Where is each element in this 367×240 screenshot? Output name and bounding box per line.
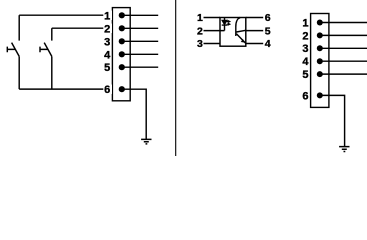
wire S2 top terminal: [51, 28, 53, 40]
wire OK1 pin 3 (nc): [204, 43, 221, 45]
svg-text:4: 4: [265, 38, 271, 50]
svg-text:3: 3: [302, 43, 308, 55]
op-amp, er, optocoupler OK1 body: [220, 18, 246, 47]
node SV2 pin 5: [317, 71, 323, 77]
switch S1 blade: [12, 43, 20, 57]
svg-text:4: 4: [302, 56, 309, 68]
node SV1 pin 5: [119, 64, 125, 70]
LED D1 light arrow upper: [227, 21, 231, 23]
svg-text:5: 5: [104, 62, 110, 74]
transistor Q1 emitter: [236, 34, 245, 44]
transistor Q1 base bar: [235, 27, 237, 37]
connector SV1 body: [112, 8, 130, 101]
node SV2 pin 2: [317, 32, 323, 38]
node SV2 pin 3: [317, 45, 323, 51]
wire OK1 pin 5 (collector): [246, 30, 263, 32]
wire common bottom net to pin 6: [19, 88, 112, 90]
wire OK1 pin 4 (emitter): [246, 43, 263, 45]
svg-text:5: 5: [302, 69, 308, 81]
switch S1 actuator: [7, 47, 15, 53]
node SV1 pin 1: [119, 12, 125, 18]
LED D1 cathode bar: [222, 24, 228, 26]
wire SV2 pin 4 stub: [320, 60, 367, 62]
svg-text:6: 6: [104, 84, 110, 96]
node SV1 pin 3: [119, 38, 125, 44]
wire SV1 pin 6 to ground: [122, 89, 146, 139]
wire pin2 net (switch S2 to connector SV1 pin 2): [52, 27, 113, 29]
wire SV1 pin 1 stub: [122, 14, 158, 16]
node SV1 pin 4: [119, 51, 125, 57]
wire OK1 pin 6 (base): [246, 17, 263, 19]
switch S2 blade: [44, 43, 52, 57]
svg-text:2: 2: [104, 23, 110, 35]
wire SV1 pin 5 stub: [122, 66, 158, 68]
wire S1 top terminal: [18, 15, 20, 40]
transistor Q1 collector: [236, 30, 245, 32]
svg-text:1: 1: [197, 12, 203, 24]
wire SV2 pin 5 stub: [320, 73, 367, 75]
ground GND1: [141, 139, 151, 144]
node SV1 pin 6: [119, 86, 125, 92]
wire SV1 pin 2 stub: [122, 27, 158, 29]
wire OK1 pin 2 (cathode): [204, 30, 225, 32]
svg-text:2: 2: [197, 25, 203, 37]
wire S1 bottom terminal: [18, 56, 20, 89]
LED D1 anode lead: [224, 18, 226, 21]
wire SV2 pin 6 to ground: [320, 95, 345, 146]
svg-text:6: 6: [302, 90, 308, 102]
wire OK1 pin 1 (anode): [204, 17, 221, 19]
node SV2 pin 4: [317, 58, 323, 64]
svg-text:3: 3: [104, 36, 110, 48]
wire SV2 pin 2 stub: [320, 34, 367, 36]
wire SV2 pin 3 stub: [320, 47, 367, 49]
svg-text:3: 3: [197, 38, 203, 50]
svg-text:4: 4: [104, 49, 111, 61]
frame divider line: [175, 0, 177, 156]
wire pin1 net (switch S1 to connector SV1 pin 1): [19, 14, 112, 16]
svg-text:1: 1: [302, 17, 308, 29]
transistor Q1 emitter arrow: [241, 40, 244, 43]
svg-text:5: 5: [265, 25, 271, 37]
node SV2 pin 1: [317, 20, 323, 26]
LED D1 triangle: [222, 20, 228, 25]
ground GND2: [339, 147, 349, 152]
connector SV2 body: [311, 14, 329, 108]
transistor Q1 base lead curve: [236, 18, 240, 27]
node SV2 pin 6: [317, 92, 323, 98]
wire SV2 pin 1 stub: [320, 22, 367, 24]
switch S2 actuator: [40, 47, 48, 53]
LED D1 cathode lead: [224, 25, 226, 31]
label SV1 pin numbers background: [103, 11, 112, 94]
wire SV1 pin 4 stub: [122, 53, 158, 55]
node SV1 pin 2: [119, 25, 125, 31]
svg-text:1: 1: [104, 10, 110, 22]
wire SV1 pin 3 stub: [122, 40, 158, 42]
svg-text:6: 6: [265, 12, 271, 24]
LED D1 light arrow lower: [227, 23, 231, 25]
wire S2 bottom terminal: [51, 56, 53, 89]
svg-text:2: 2: [302, 30, 308, 42]
